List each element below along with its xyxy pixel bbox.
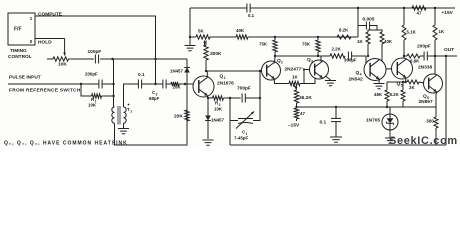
svg-text:5.1K: 5.1K: [407, 30, 417, 35]
ground zener: [385, 138, 395, 143]
svg-text:6.8K: 6.8K: [410, 59, 420, 64]
svg-text:700pF: 700pF: [237, 86, 251, 92]
svg-text:300µF: 300µF: [344, 58, 357, 63]
transistor Q2 2N2477: [262, 61, 281, 80]
transistor Q5 2N338: [392, 58, 413, 79]
ground Q3: [326, 76, 331, 80]
svg-text:47: 47: [300, 111, 305, 116]
capacitor 0.1 rail: [247, 4, 250, 13]
potentiometer 1K emitter: [289, 81, 300, 85]
svg-text:1N705: 1N705: [366, 118, 380, 124]
capacitor C3 68pF: [163, 80, 166, 89]
resistor 300K: [205, 41, 207, 46]
wire pot to cap: [69, 58, 94, 60]
svg-text:8.2K: 8.2K: [390, 92, 400, 97]
resistor 75K right: [316, 40, 320, 52]
ground rail left: [185, 46, 196, 51]
wire junction column: [113, 59, 115, 107]
svg-text:200pF: 200pF: [85, 72, 98, 77]
svg-text:560: 560: [427, 119, 435, 124]
svg-text:OUT: OUT: [444, 47, 454, 53]
wire pulse input line: [8, 83, 81, 85]
svg-text:–15V: –15V: [288, 123, 300, 129]
svg-text:+15V: +15V: [442, 10, 454, 16]
resistor 8.2K lower: [402, 82, 404, 90]
svg-text:1: 1: [130, 109, 132, 113]
svg-text:0.005: 0.005: [363, 17, 375, 23]
svg-text:CONTROL: CONTROL: [8, 54, 32, 60]
resistor 6.8K: [404, 55, 407, 57]
svg-text:1N457: 1N457: [211, 118, 224, 123]
transistor Q1 2N1676: [193, 76, 214, 97]
ground bypass: [330, 137, 342, 142]
transistor Q4 2N542: [364, 59, 386, 81]
svg-text:100pF: 100pF: [88, 49, 102, 55]
capacitor C1 7-45pF variable: [229, 98, 231, 145]
svg-text:TIMING: TIMING: [10, 48, 27, 54]
wire compute line: [35, 16, 156, 84]
svg-text:Q₂, Q₃, Q₄, HAVE COMMON HEATSI: Q₂, Q₃, Q₄, HAVE COMMON HEATSINK: [4, 141, 128, 147]
wire Q2 collector: [274, 56, 277, 63]
svg-text:10K: 10K: [58, 62, 67, 68]
svg-text:HOLD: HOLD: [38, 40, 52, 46]
svg-text:36.2K: 36.2K: [299, 95, 312, 101]
wire -15V distribution row: [297, 106, 437, 108]
ground 1N457: [203, 140, 214, 145]
svg-text:40K: 40K: [236, 28, 245, 33]
wire Q4 base from row: [365, 56, 367, 64]
svg-text:1N457: 1N457: [170, 69, 183, 74]
wire Q6 collector: [434, 56, 436, 74]
wire Q3 base stub: [304, 70, 310, 84]
wire T1 primary bottom loop to 20K: [115, 84, 188, 145]
svg-text:2.2K: 2.2K: [332, 47, 342, 52]
svg-text:2N2477’s: 2N2477’s: [285, 67, 306, 73]
ground Q4 emitter: [378, 79, 380, 83]
capacitor 0.1 bypass: [335, 107, 337, 118]
wire hold wiper arrow: [64, 39, 66, 56]
svg-text:COMPUTE: COMPUTE: [38, 12, 63, 18]
svg-text:0.1: 0.1: [320, 120, 327, 126]
ground T1 secondary: [123, 123, 125, 128]
svg-text:1K: 1K: [357, 39, 363, 44]
diode 1N457 emitter: [207, 98, 209, 112]
transistor Q3 2N2477: [310, 60, 329, 79]
svg-text:1K: 1K: [292, 75, 298, 80]
svg-text:4: 4: [360, 73, 362, 77]
wire Q1 emitter row: [208, 96, 213, 98]
wire bottom rail: [230, 144, 446, 146]
svg-text:75K: 75K: [259, 42, 268, 47]
resistor 1K right: [434, 8, 436, 25]
svg-text:10K: 10K: [214, 107, 223, 112]
resistor 8.2K bias: [337, 35, 351, 39]
wire Q3 collector: [318, 56, 321, 62]
flip-flop U1 timing control box: [8, 13, 35, 45]
resistor 36.2K: [295, 88, 298, 91]
svg-text:20K: 20K: [174, 114, 183, 120]
wire output return rail: [445, 56, 447, 145]
resistor 40K Q4: [377, 30, 382, 32]
resistor 75K left: [273, 40, 277, 52]
wire Q2 emitter down: [274, 79, 289, 84]
svg-text:FROM REFERENCE SWITCH: FROM REFERENCE SWITCH: [9, 88, 81, 94]
resistor 40K: [236, 35, 248, 39]
svg-text:5K: 5K: [198, 29, 204, 34]
wire Q3 emitter: [300, 78, 315, 84]
wire bias row: [190, 36, 196, 38]
svg-text:0.1: 0.1: [138, 72, 145, 78]
svg-text:0.1: 0.1: [248, 13, 255, 18]
svg-text:200pF: 200pF: [417, 44, 431, 50]
wire to Q1 base: [179, 83, 193, 85]
resistor 2K: [407, 80, 419, 84]
wire T1 secondary top: [124, 84, 139, 107]
resistor 5.1K: [403, 8, 405, 25]
svg-text:1K: 1K: [439, 29, 445, 34]
svg-text:47: 47: [417, 11, 422, 16]
svg-text:2K: 2K: [409, 85, 415, 90]
resistor 20K series: [166, 83, 171, 85]
capacitor 300uF coupling: [348, 52, 351, 61]
svg-text:2N542: 2N542: [349, 77, 363, 83]
svg-text:2N338: 2N338: [418, 65, 432, 71]
wire 700pF to Q2 base wire: [259, 71, 261, 98]
svg-text:68pF: 68pF: [149, 96, 160, 101]
svg-text:40K: 40K: [384, 39, 393, 44]
resistor 560: [435, 92, 438, 117]
svg-text:PULSE INPUT: PULSE INPUT: [9, 75, 41, 81]
svg-text:1: 1: [224, 76, 226, 80]
wire cap to junction: [100, 58, 155, 60]
potentiometer 10K: [47, 58, 53, 60]
node junction A: [111, 58, 113, 60]
wire Q5 emitter row: [405, 78, 408, 82]
wire hold line: [35, 38, 65, 40]
svg-text:2N1676: 2N1676: [217, 81, 234, 87]
T1 phase dot and label: [128, 104, 130, 106]
svg-text:3: 3: [311, 60, 313, 64]
wire Q4 to Q5: [386, 68, 392, 70]
wire rail left drop: [189, 8, 191, 45]
resistor 1K Q4: [368, 30, 377, 32]
svg-text:300K: 300K: [210, 51, 222, 57]
resistor 47 rail: [412, 6, 426, 10]
resistor R1 10K: [81, 84, 92, 96]
svg-text:7-45pF: 7-45pF: [234, 136, 248, 141]
resistor 2.2K: [330, 54, 345, 58]
wire +15V top rail: [190, 7, 247, 9]
resistor 48K: [386, 82, 388, 90]
svg-text:SeekIC.com: SeekIC.com: [389, 135, 458, 147]
resistor 20K feedback: [185, 110, 189, 121]
capacitor 0.005: [357, 8, 359, 37]
svg-text:75K: 75K: [302, 42, 311, 47]
svg-text:10K: 10K: [88, 103, 97, 108]
svg-text:F/F: F/F: [14, 27, 22, 33]
resistor R2 10K: [213, 96, 224, 100]
wire 300K to Q1 collector: [205, 60, 207, 71]
svg-text:2: 2: [281, 61, 283, 65]
transistor Q6 2N897: [424, 74, 443, 93]
transformer T1: [112, 107, 115, 123]
wire to diode branch: [156, 58, 188, 60]
wire collector row to 2.2K: [275, 55, 330, 57]
svg-text:2N897: 2N897: [419, 99, 433, 105]
svg-text:5: 5: [401, 84, 403, 88]
svg-text:8.2K: 8.2K: [339, 28, 349, 33]
potentiometer 5K: [196, 35, 210, 39]
wire Q1 collector to Q2 base: [206, 70, 262, 72]
svg-text:48K: 48K: [374, 92, 383, 97]
svg-text:20K: 20K: [173, 85, 182, 90]
resistor 47 negative: [294, 108, 298, 119]
